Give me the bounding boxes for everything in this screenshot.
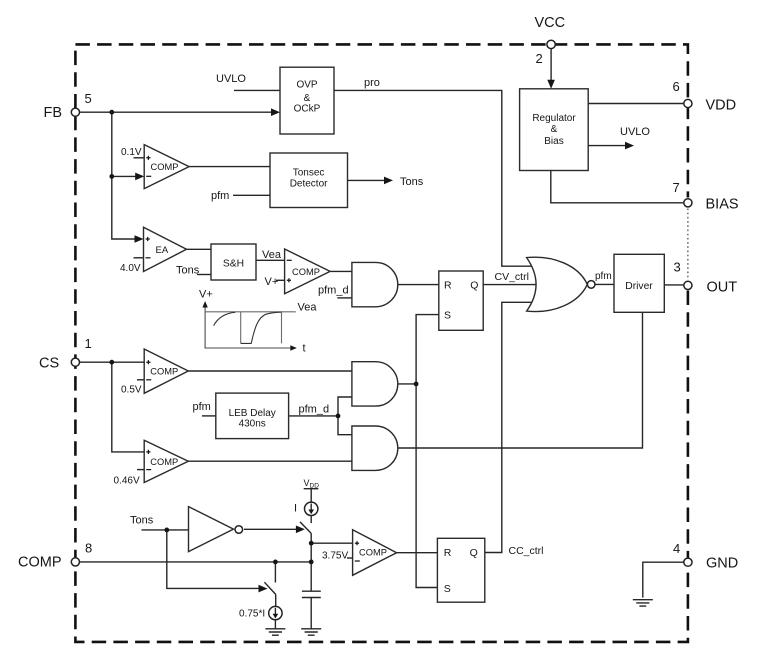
svg-text:Q: Q [470,279,478,291]
svg-text:Q: Q [470,547,478,559]
svg-text:3.75V: 3.75V [322,551,348,562]
svg-text:430ns: 430ns [239,419,266,430]
svg-text:0.5V: 0.5V [121,385,142,396]
svg-text:R: R [444,279,452,291]
svg-text:4: 4 [673,541,680,556]
svg-text:R: R [444,547,452,559]
svg-text:LEB Delay: LEB Delay [229,408,276,419]
svg-text:Vea: Vea [262,249,282,261]
svg-text:UVLO: UVLO [216,73,246,85]
svg-text:&: & [551,124,558,135]
svg-text:3: 3 [674,260,681,275]
svg-text:COMP: COMP [18,555,62,571]
svg-text:0.46V: 0.46V [114,476,140,487]
svg-text:CS: CS [39,356,59,372]
svg-text:S&H: S&H [223,259,244,270]
svg-text:t: t [303,343,306,355]
svg-text:V+: V+ [265,276,279,288]
svg-text:Bias: Bias [544,136,563,147]
svg-text:EA: EA [156,245,169,256]
svg-text:DD: DD [310,483,320,490]
svg-text:Driver: Driver [625,281,653,292]
svg-text:UVLO: UVLO [620,126,650,138]
svg-text:pfm: pfm [595,271,612,282]
svg-text:Vea: Vea [298,302,318,314]
svg-text:COMP: COMP [151,162,179,172]
svg-text:Tonsec: Tonsec [293,168,325,179]
svg-text:7: 7 [673,180,680,195]
svg-text:VCC: VCC [535,15,566,31]
svg-text:8: 8 [85,541,92,556]
svg-text:Tons: Tons [176,265,200,277]
svg-text:OVP: OVP [296,80,317,91]
svg-text:COMP: COMP [150,457,178,467]
svg-text:pfm: pfm [193,401,211,413]
svg-text:COMP: COMP [292,267,320,277]
svg-text:1: 1 [85,336,92,351]
svg-text:V+: V+ [199,289,213,301]
svg-text:Detector: Detector [290,178,328,189]
svg-text:4.0V: 4.0V [120,263,141,274]
svg-text:&: & [304,93,311,104]
svg-text:Regulator: Regulator [532,113,576,124]
svg-text:Tons: Tons [130,515,154,527]
svg-text:Tons: Tons [400,176,424,188]
svg-text:BIAS: BIAS [706,197,739,213]
svg-text:I: I [294,503,297,515]
svg-text:6: 6 [673,79,680,94]
svg-text:COMP: COMP [150,367,178,377]
svg-text:VDD: VDD [706,98,737,114]
svg-text:pfm: pfm [211,190,229,202]
svg-text:OCkP: OCkP [294,104,321,115]
svg-text:CV_ctrl: CV_ctrl [495,271,529,283]
svg-text:pfm_d: pfm_d [318,285,349,297]
svg-text:CC_ctrl: CC_ctrl [509,545,544,557]
svg-text:FB: FB [44,105,63,121]
svg-text:0.75*I: 0.75*I [239,609,265,620]
svg-text:pro: pro [364,77,380,89]
svg-text:2: 2 [536,51,543,66]
svg-text:GND: GND [706,556,738,572]
svg-text:OUT: OUT [707,280,738,296]
svg-text:S: S [444,310,451,322]
svg-text:5: 5 [85,91,92,106]
svg-text:pfm_d: pfm_d [299,404,330,416]
svg-text:0.1V: 0.1V [121,147,142,158]
svg-text:COMP: COMP [359,547,387,557]
svg-text:S: S [444,583,451,595]
